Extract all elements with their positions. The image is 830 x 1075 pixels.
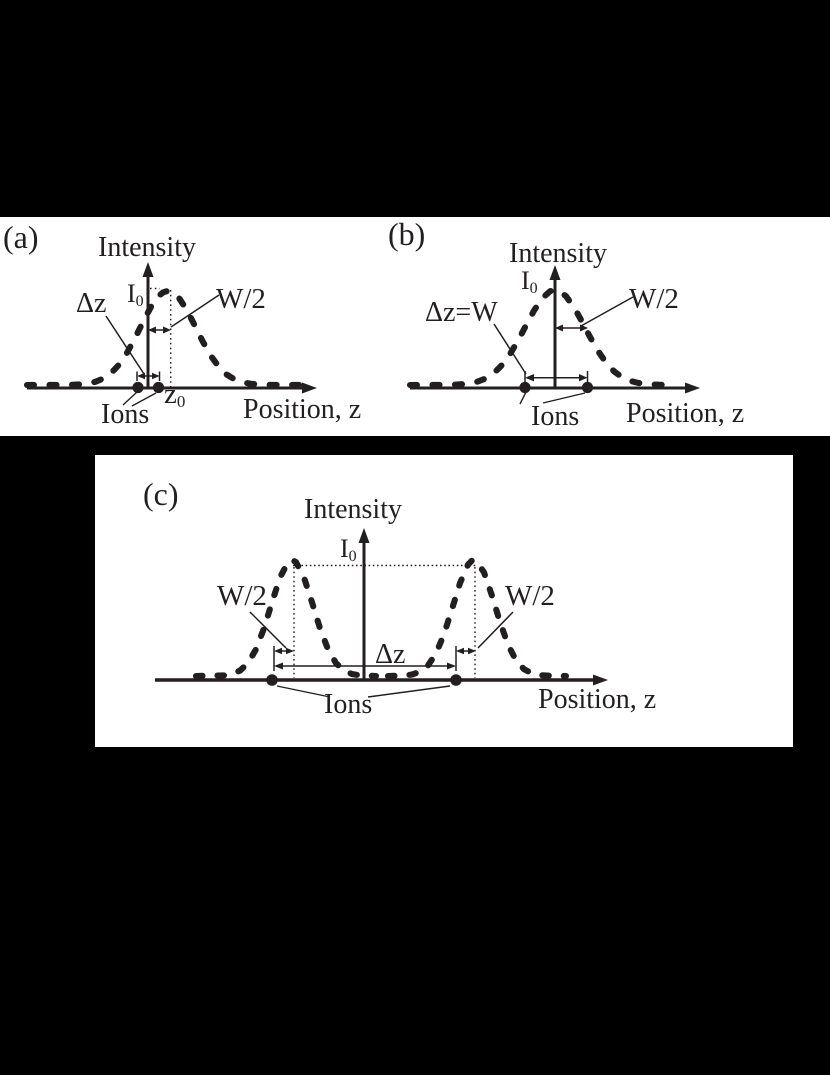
- label (a) Ions: [101, 401, 149, 429]
- (c) dotted horizontal line at I0 level: [293, 565, 476, 567]
- label (b) Position, z: [626, 400, 744, 428]
- (c) ion dot right: [450, 674, 462, 686]
- (c) dashed gaussian curve left: [196, 560, 376, 676]
- label (c) W/2 right: [505, 582, 555, 611]
- (c) horizontal axis (Position z): [155, 675, 608, 686]
- (c) dotted vertical line left peak: [293, 567, 295, 678]
- (a) vertical axis (Intensity): [143, 262, 154, 389]
- label (a) delta z: [76, 290, 106, 318]
- (b) leader lines from Ions label to dots: [520, 392, 526, 404]
- label (c) delta z: [375, 641, 405, 669]
- label (b) Ions: [531, 403, 579, 431]
- (b) vertical axis (Intensity): [550, 265, 561, 389]
- (a) origin spacing double arrow with end ticks: [137, 372, 160, 382]
- label (b) delta z = W: [425, 299, 498, 327]
- label (b) I0: [521, 268, 538, 297]
- label (a) z0: [164, 380, 185, 410]
- (c) left W/2 leader line: [250, 612, 286, 648]
- (b) dashed gaussian beam curve: [410, 290, 666, 385]
- (a) ion dot right: [153, 382, 164, 393]
- (a) W/2 double arrow (axis to z0): [148, 327, 171, 334]
- (b) horizontal axis (Position z): [410, 383, 700, 394]
- (b) ion spacing double arrow with end ticks: [525, 371, 588, 384]
- label (b): [388, 218, 425, 250]
- (c) end tick right: [455, 646, 457, 671]
- label (a) Position, z: [243, 396, 361, 424]
- (a) horizontal axis (Position z): [27, 383, 317, 394]
- label (c) Position, z: [538, 686, 656, 714]
- label (a) Intensity: [98, 234, 196, 262]
- label (c) Ions: [324, 691, 372, 719]
- label (c) I0: [340, 536, 357, 565]
- (c) dotted vertical line right peak: [474, 567, 476, 678]
- white background patch: panel (c): [95, 455, 793, 747]
- (b) delta-z leader line: [494, 324, 526, 374]
- label (b) W/2: [629, 285, 679, 314]
- (c) leader lines from Ions label to dots: [277, 686, 330, 697]
- (a) dotted tick at I0 level: [150, 288, 160, 290]
- (c) left W/2 double arrow: [274, 648, 294, 654]
- (a) ion dot left: [132, 382, 143, 393]
- (a) leader lines from Ions label to dots: [123, 392, 137, 405]
- label (b) Intensity: [509, 240, 607, 268]
- (c) end tick left: [273, 646, 275, 671]
- (a) dashed gaussian beam curve: [27, 291, 311, 385]
- (c) right W/2 double arrow: [456, 648, 476, 654]
- (b) ion dot left: [519, 382, 530, 393]
- label (a): [3, 221, 39, 253]
- (b) W/2 double arrow (axis to half width): [555, 325, 588, 332]
- (c) vertical axis (Intensity): [359, 528, 370, 681]
- (c) dashed gaussian curve right: [388, 561, 566, 677]
- (a) dotted vertical line at z0 (beam centre): [170, 290, 172, 387]
- (b) W/2 leader line: [581, 297, 633, 326]
- label (c) W/2 left: [217, 582, 267, 611]
- label (c) Intensity: [304, 496, 402, 524]
- (c) ion dot left: [266, 674, 278, 686]
- label (a) I0: [127, 281, 144, 310]
- (a) W/2 leader line: [171, 295, 219, 327]
- (c) right W/2 leader line: [478, 612, 513, 648]
- white background patch: panels (a)+(b): [0, 217, 830, 436]
- (b) ion dot right: [582, 382, 593, 393]
- (a) delta-z leader line: [106, 316, 144, 374]
- (c) delta-z long double arrow between ions: [274, 663, 456, 670]
- label (a) W/2: [216, 285, 266, 314]
- label (c): [143, 478, 179, 510]
